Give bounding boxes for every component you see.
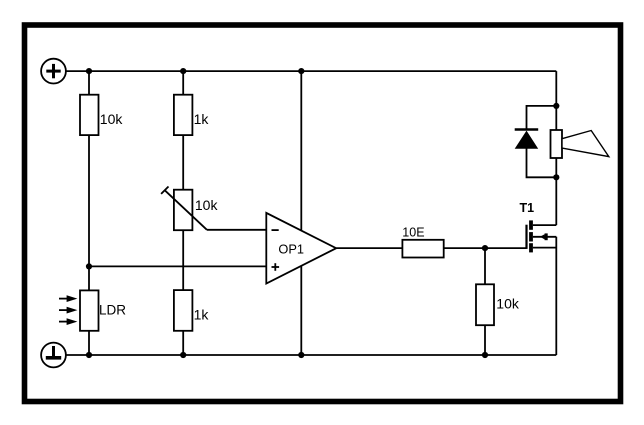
- svg-text:1k: 1k: [194, 111, 210, 127]
- wire: op-amp power vertical: [300, 71, 302, 355]
- resistor R4 1k: [174, 290, 209, 331]
- svg-text:1k: 1k: [194, 307, 210, 323]
- ground terminal: [41, 343, 66, 368]
- T1 source bar: [529, 243, 533, 252]
- resistor R1 10k: [80, 95, 123, 135]
- wire: right vertical buzzer/drain branch: [555, 71, 557, 225]
- wire: bottom ground rail: [66, 354, 556, 356]
- T1 drain bar: [529, 220, 533, 229]
- node: top rail / op-amp power: [298, 68, 304, 74]
- supply terminal +: [41, 59, 66, 84]
- resistor R6 10k (gate pulldown): [476, 284, 520, 325]
- LDR light arrow 1: [59, 298, 68, 300]
- buzzer BZ1: [551, 130, 609, 158]
- node: top rail / R2: [180, 68, 186, 74]
- svg-text:T1: T1: [520, 201, 535, 215]
- node: buzzer top / diode: [553, 103, 559, 109]
- T1 drain wire: [533, 224, 556, 226]
- T1 body wire with arrow: [533, 236, 556, 238]
- T1 source wire: [533, 247, 556, 249]
- LDR light arrow 2: [59, 309, 68, 311]
- transistor T1 MOSFET: [520, 201, 557, 253]
- node: ground rail / LDR: [86, 352, 92, 358]
- wire: diode branch top: [527, 106, 557, 130]
- wire: diode branch bottom: [527, 148, 557, 177]
- resistor R5 10E: [402, 226, 443, 258]
- wire: pot wiper to op-amp minus input: [207, 229, 266, 231]
- potentiometer P1 10k: [161, 187, 218, 231]
- svg-text:10k: 10k: [195, 197, 219, 213]
- node: plus input / divider: [86, 263, 92, 269]
- node: ground rail / pulldown: [482, 352, 488, 358]
- LDR: [59, 290, 126, 330]
- svg-text:10E: 10E: [402, 226, 424, 240]
- node: gate / pulldown: [482, 245, 488, 251]
- LDR light arrow 3: [59, 321, 68, 323]
- wire: op-amp output to gate node: [336, 247, 526, 249]
- svg-text:10k: 10k: [496, 295, 520, 311]
- op-amp OP1: [266, 213, 336, 284]
- T1 gate line: [525, 225, 527, 249]
- wire: op-amp plus input: [89, 265, 266, 267]
- node: ground rail / op-amp power: [298, 352, 304, 358]
- wire: middle divider vertical (1k/pot/1k chain): [182, 71, 184, 355]
- wire: pulldown resistor branch: [484, 248, 486, 355]
- node: top rail / R1: [86, 68, 92, 74]
- node: ground rail / R4: [180, 352, 186, 358]
- svg-text:LDR: LDR: [99, 302, 126, 317]
- svg-text:OP1: OP1: [278, 242, 304, 257]
- diode D1 (flyback): [515, 130, 539, 149]
- resistor R2 1k: [174, 95, 209, 135]
- T1 body bar: [529, 232, 533, 241]
- wire: top supply rail: [66, 70, 556, 72]
- svg-text:10k: 10k: [100, 111, 124, 127]
- wire: left divider vertical (10k/LDR chain): [88, 71, 90, 355]
- node: buzzer bottom / diode: [553, 174, 559, 180]
- wire: T1 source/body to ground rail: [555, 237, 557, 355]
